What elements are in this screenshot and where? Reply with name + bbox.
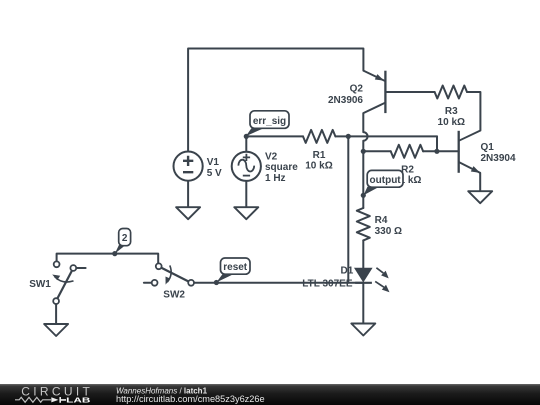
wire SW1 throw stub [76,267,85,269]
wire Q1 emitter to ground [479,173,481,191]
svg-text:http://circuitlab.com/cme85z3y: http://circuitlab.com/cme85z3y6z26e [116,394,265,404]
wire junction down to LED row [347,136,349,282]
svg-text:V2: V2 [265,152,278,163]
net label output [364,170,404,195]
wire SW1 bottom to ground [55,304,57,324]
svg-text:10 kΩ: 10 kΩ [438,117,465,128]
svg-text:err_sig: err_sig [253,116,286,127]
ground (LED) [351,324,375,336]
wire LED to ground [362,283,364,324]
wire output node to R4 [362,195,364,208]
wire V2 top to err_sig node [245,136,247,151]
svg-text:10 kΩ: 10 kΩ [305,161,332,172]
svg-text:SW1: SW1 [29,279,51,290]
switch SW1 [52,261,76,304]
net label 2 [115,229,131,254]
wire R3 to Q1 collector [467,92,480,131]
wire top rail V1 to Q2 emitter [188,49,363,152]
wire R4 to LED [362,240,364,268]
ground (V2) [234,207,258,219]
ground (V1) [176,207,200,219]
wire Q2 base to R3 [385,91,434,93]
wire R2 left from rail junction [363,150,390,152]
svg-text:1 Hz: 1 Hz [265,173,286,184]
svg-text:LAB: LAB [66,396,91,405]
svg-text:330 Ω: 330 Ω [375,226,402,237]
resistor R1 [303,130,335,143]
svg-text:R3: R3 [445,106,458,117]
wire err_sig node to R1 [246,135,303,137]
svg-text:square: square [265,162,298,173]
ground (Q1 emitter) [468,191,492,203]
svg-text:5 V: 5 V [207,168,222,179]
banner [0,384,540,405]
net label err_sig [246,111,289,136]
junction node V2/err_sig [244,134,249,139]
transistor Q2 (PNP 2N3906) [363,71,385,114]
junction node R1 right [346,134,351,139]
switch SW2 [152,263,194,285]
junction node reset [214,280,219,285]
junction node R2 left [361,149,366,154]
transistor Q1 (NPN 2N3904) [459,131,481,173]
wire R1 to junction [335,135,348,137]
svg-text:V1: V1 [207,157,220,168]
wire junction to Q1-base corner [348,135,437,137]
voltage source V1 [174,152,203,181]
junction node R2 right / Q1 base [434,149,439,154]
svg-text:LTL 307EE: LTL 307EE [302,279,353,290]
svg-text:D1: D1 [341,265,354,276]
svg-text:R4: R4 [375,215,388,226]
wire corner down to R2 right junction [436,136,438,151]
svg-text:Q2: Q2 [350,84,364,95]
svg-text:output: output [370,175,402,186]
LED light arrow 1 [376,268,388,279]
svg-text:R1: R1 [313,150,326,161]
svg-text:2: 2 [122,233,128,244]
svg-text:2N3906: 2N3906 [328,95,363,106]
LED light arrow 2 [375,281,389,292]
wire SW2 left stub [144,282,152,284]
wire SW2 to LED row [194,282,363,284]
wire R2 to Q1 base [423,150,459,152]
resistor R4 [357,208,370,240]
LED D1 [355,268,372,283]
svg-text:SW2: SW2 [163,290,185,301]
net label reset [216,258,250,282]
junction node output [361,193,366,198]
ground (SW1) [44,324,68,336]
voltage source V2 square [232,152,261,181]
wire switch top rail [57,254,159,264]
svg-text:reset: reset [223,262,248,273]
resistor R3 [435,86,467,99]
junction node 2 [112,251,117,256]
wire V2 bottom to ground [245,181,247,207]
svg-text:2N3904: 2N3904 [481,153,516,164]
wire V1 bottom to ground [187,181,189,208]
resistor R2 [391,145,423,158]
svg-text:Q1: Q1 [481,142,495,153]
transistor Q2 collector diagonal and rail with hop [363,103,385,196]
